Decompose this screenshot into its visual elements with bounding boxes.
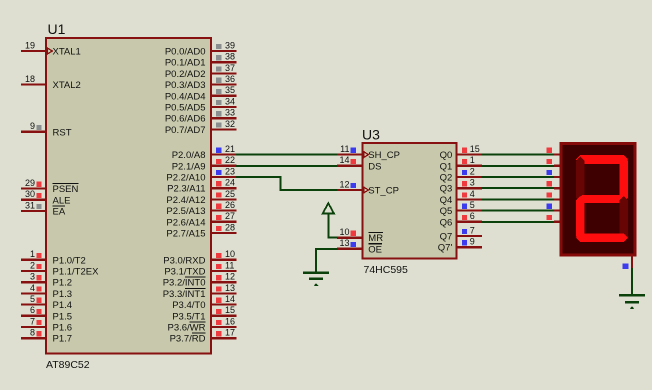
svg-text:21: 21	[225, 144, 235, 154]
svg-text:P3.5/T1: P3.5/T1	[172, 311, 205, 322]
node display segment g pin	[547, 215, 562, 223]
U1 pin 39 P0.0/AD0 (right)	[165, 40, 237, 57]
svg-text:Q1: Q1	[440, 161, 453, 172]
svg-text:3: 3	[30, 272, 35, 282]
svg-text:ST_CP: ST_CP	[368, 186, 399, 197]
wire VCC to MR pin 10	[327, 237, 337, 239]
svg-text:P1.1/T2EX: P1.1/T2EX	[53, 267, 100, 278]
wire Q4 to display segment e	[481, 198, 554, 200]
svg-text:P3.3/INT1: P3.3/INT1	[163, 289, 206, 300]
wire Q0 to display segment a	[481, 154, 554, 156]
svg-text:P2.1/A9: P2.1/A9	[172, 161, 206, 172]
U1 pin 13 P3.3/INT1 (right)	[163, 283, 237, 300]
U1 pin 22 P2.1/A9 (right)	[172, 155, 237, 172]
svg-text:Q5: Q5	[440, 206, 453, 217]
svg-text:Q6: Q6	[440, 217, 453, 228]
svg-text:7: 7	[30, 316, 35, 326]
ground symbol (display)	[619, 294, 645, 309]
wire Q2 to display segment c	[481, 176, 554, 178]
display segment g (on)	[578, 195, 626, 203]
wire P2.0 to SH_CP	[236, 154, 338, 156]
svg-text:33: 33	[225, 108, 235, 118]
wire Q6 to display segment g	[481, 221, 554, 223]
svg-text:Q0: Q0	[440, 150, 453, 161]
svg-text:P2.5/A13: P2.5/A13	[166, 206, 205, 217]
U1 pin 8 P1.7 (left)	[21, 328, 72, 345]
svg-text:13: 13	[339, 238, 349, 248]
svg-text:11: 11	[225, 260, 234, 270]
svg-text:P2.6/A14: P2.6/A14	[166, 217, 205, 228]
U1 pin 11 P3.1/TXD (right)	[164, 260, 236, 277]
node display segment b pin	[547, 159, 562, 167]
svg-text:14: 14	[225, 294, 235, 304]
svg-text:P3.2/INT0: P3.2/INT0	[163, 278, 206, 289]
svg-text:P0.0/AD0: P0.0/AD0	[165, 47, 206, 58]
svg-text:38: 38	[225, 52, 235, 62]
U1 pin 28 P2.7/A15 (right)	[166, 222, 236, 239]
value label 74HC595	[364, 264, 409, 276]
svg-text:2: 2	[30, 260, 35, 270]
svg-text:AT89C52: AT89C52	[46, 359, 90, 371]
U3 pin 7 Q7 (right)	[440, 225, 482, 242]
svg-text:XTAL1: XTAL1	[53, 47, 81, 58]
7-segment display body	[561, 144, 635, 256]
U1 pin 19 XTAL1 (left)	[21, 40, 81, 57]
svg-text:13: 13	[225, 283, 235, 293]
svg-text:12: 12	[225, 272, 235, 282]
node display segment a pin	[547, 148, 562, 156]
svg-text:3: 3	[470, 178, 475, 188]
svg-text:1: 1	[30, 249, 35, 259]
wire Q5 to display segment f	[481, 210, 554, 212]
svg-text:25: 25	[225, 189, 235, 199]
svg-text:P2.3/A11: P2.3/A11	[167, 184, 205, 195]
display segment d (on)	[576, 234, 628, 243]
svg-text:P2.0/A8: P2.0/A8	[172, 150, 206, 161]
wire Q3 to display segment d	[481, 187, 554, 189]
U3 pin 10 MR (left)	[337, 227, 383, 244]
U1 pin 26 P2.5/A13 (right)	[166, 200, 236, 217]
U1 pin 21 P2.0/A8 (right)	[172, 144, 237, 161]
svg-text:P0.5/AD5: P0.5/AD5	[165, 103, 206, 114]
U3 pin 1 Q1 (right)	[440, 155, 482, 172]
U3 pin 11 SH_CP (left)	[337, 144, 400, 161]
U1 pin 14 P3.4/T0 (right)	[172, 294, 236, 311]
display common cathode pin	[623, 255, 633, 269]
U1 pin 30 ALE (left)	[21, 189, 70, 206]
svg-text:DS: DS	[368, 161, 381, 172]
wire P2.1 to DS	[236, 165, 338, 167]
svg-text:27: 27	[225, 211, 235, 221]
display segment b (on)	[620, 157, 629, 203]
U1 pin 6 P1.5 (left)	[21, 305, 72, 322]
svg-text:5: 5	[30, 294, 35, 304]
svg-text:P0.6/AD6: P0.6/AD6	[165, 114, 206, 125]
svg-text:OE: OE	[368, 244, 382, 255]
svg-text:P2.7/A15: P2.7/A15	[166, 229, 205, 240]
svg-text:XTAL2: XTAL2	[53, 80, 81, 91]
ground symbol (U3 OE)	[303, 272, 329, 286]
display segment e (on)	[576, 196, 585, 241]
svg-text:16: 16	[225, 316, 235, 326]
U3 pin 12 ST_CP (left)	[337, 179, 399, 196]
wire OE pin 13 to ground	[315, 248, 338, 272]
reference label U3	[362, 127, 380, 143]
svg-text:35: 35	[225, 85, 235, 95]
svg-text:P1.4: P1.4	[53, 300, 73, 311]
U1 pin 10 P3.0/RXD (right)	[163, 249, 236, 266]
svg-text:9: 9	[470, 237, 475, 247]
value label AT89C52	[46, 359, 90, 371]
U1 pin 24 P2.3/A11 (right)	[167, 178, 236, 195]
U1 pin 2 P1.1/T2EX (left)	[21, 260, 99, 277]
svg-text:Q7': Q7'	[438, 243, 453, 254]
U1 pin 16 P3.6/WR (right)	[167, 316, 236, 333]
svg-text:34: 34	[225, 96, 235, 106]
svg-text:P0.7/AD7: P0.7/AD7	[165, 125, 206, 136]
svg-text:P2.2/A10: P2.2/A10	[166, 173, 205, 184]
svg-text:9: 9	[30, 121, 35, 131]
wire P2.2 to ST_CP (stepped)	[236, 176, 338, 191]
svg-text:P1.3: P1.3	[53, 289, 73, 300]
svg-text:11: 11	[340, 144, 349, 154]
svg-text:31: 31	[25, 200, 35, 210]
svg-text:P3.4/T0: P3.4/T0	[172, 300, 205, 311]
svg-text:12: 12	[339, 179, 349, 189]
svg-text:ALE: ALE	[53, 195, 71, 206]
U3 pin 4 Q4 (right)	[440, 189, 482, 206]
svg-text:P1.0/T2: P1.0/T2	[53, 255, 86, 266]
svg-text:24: 24	[225, 178, 235, 188]
U1 pin 7 P1.6 (left)	[21, 316, 72, 333]
svg-text:18: 18	[25, 74, 35, 84]
svg-text:1: 1	[470, 155, 475, 165]
display segment f (off)	[576, 157, 585, 203]
svg-text:2: 2	[470, 166, 475, 176]
U1 pin 9 RST (left)	[21, 121, 72, 138]
svg-text:26: 26	[225, 200, 235, 210]
U1 pin 18 XTAL2 (left)	[21, 74, 81, 91]
U1 pin 32 P0.7/AD7 (right)	[165, 119, 237, 136]
svg-text:19: 19	[25, 40, 35, 50]
svg-text:Q7: Q7	[440, 232, 453, 243]
svg-text:7: 7	[470, 225, 475, 235]
svg-text:4: 4	[30, 283, 35, 293]
svg-text:37: 37	[225, 63, 235, 73]
node display segment f pin	[547, 204, 562, 212]
U3 pin 15 Q0 (right)	[440, 144, 482, 161]
svg-text:U3: U3	[362, 127, 380, 143]
U3 pin 3 Q3 (right)	[440, 178, 482, 195]
U1 pin 1 P1.0/T2 (left)	[21, 249, 86, 266]
IC U3 74HC595 shift register body	[362, 143, 456, 259]
U1 pin 36 P0.3/AD3 (right)	[165, 74, 237, 91]
svg-text:10: 10	[225, 249, 235, 259]
U1 pin 5 P1.4 (left)	[21, 294, 72, 311]
svg-text:Q2: Q2	[440, 173, 453, 184]
svg-text:RST: RST	[53, 127, 72, 138]
svg-text:P1.7: P1.7	[53, 334, 73, 345]
svg-text:4: 4	[470, 189, 475, 199]
wire display common to ground	[631, 268, 633, 295]
svg-text:17: 17	[225, 328, 235, 338]
svg-text:P1.2: P1.2	[53, 278, 73, 289]
display segment a (on)	[576, 155, 628, 164]
svg-text:6: 6	[30, 305, 35, 315]
U1 pin 3 P1.2 (left)	[21, 272, 72, 289]
svg-text:5: 5	[470, 200, 475, 210]
U1 pin 12 P3.2/INT0 (right)	[163, 272, 237, 289]
svg-text:U1: U1	[48, 21, 66, 37]
svg-text:22: 22	[225, 155, 235, 165]
svg-text:P0.3/AD3: P0.3/AD3	[165, 80, 206, 91]
svg-text:EA: EA	[53, 207, 66, 218]
U1 pin 34 P0.5/AD5 (right)	[165, 96, 237, 113]
svg-text:36: 36	[225, 74, 235, 84]
svg-text:8: 8	[30, 328, 35, 338]
svg-text:P3.6/WR: P3.6/WR	[167, 323, 205, 334]
svg-text:29: 29	[25, 178, 35, 188]
U3 pin 2 Q2 (right)	[440, 166, 482, 183]
svg-text:P0.1/AD1: P0.1/AD1	[165, 58, 206, 69]
U1 pin 29 PSEN (left)	[21, 178, 79, 195]
svg-text:32: 32	[225, 119, 235, 129]
svg-text:30: 30	[25, 189, 35, 199]
svg-text:P1.5: P1.5	[53, 311, 73, 322]
svg-text:PSEN: PSEN	[53, 184, 79, 195]
U1 pin 31 EA (left)	[21, 200, 66, 217]
U1 pin 4 P1.3 (left)	[21, 283, 72, 300]
U1 pin 23 P2.2/A10 (right)	[166, 166, 236, 183]
svg-text:P0.2/AD2: P0.2/AD2	[165, 69, 206, 80]
svg-text:14: 14	[339, 155, 349, 165]
node display segment e pin	[547, 192, 562, 200]
svg-text:Q4: Q4	[440, 195, 453, 206]
node display segment c pin	[547, 170, 562, 178]
svg-text:P3.1/TXD: P3.1/TXD	[164, 267, 205, 278]
svg-text:P3.0/RXD: P3.0/RXD	[163, 255, 205, 266]
svg-text:SH_CP: SH_CP	[368, 150, 400, 161]
IC U1 AT89C52 microcontroller body	[46, 38, 211, 354]
U1 pin 38 P0.1/AD1 (right)	[165, 52, 237, 69]
svg-text:10: 10	[339, 227, 349, 237]
svg-text:P2.4/A12: P2.4/A12	[166, 195, 205, 206]
svg-text:P3.7/RD: P3.7/RD	[170, 334, 206, 345]
U3 pin 13 OE (left)	[337, 238, 382, 255]
power symbol VCC arrow	[323, 203, 334, 239]
node display segment d pin	[547, 181, 562, 189]
svg-text:74HC595: 74HC595	[364, 264, 409, 276]
U1 pin 33 P0.6/AD6 (right)	[165, 108, 237, 125]
U3 pin 6 Q6 (right)	[440, 211, 482, 228]
U3 pin 9 Q7' (right)	[438, 237, 482, 254]
svg-text:28: 28	[225, 222, 235, 232]
U1 pin 35 P0.4/AD4 (right)	[165, 85, 237, 102]
U1 pin 17 P3.7/RD (right)	[170, 328, 237, 345]
U1 pin 25 P2.4/A12 (right)	[166, 189, 236, 206]
wire Q1 to display segment b	[481, 165, 554, 167]
U1 pin 27 P2.6/A14 (right)	[166, 211, 236, 228]
svg-text:P1.6: P1.6	[53, 323, 73, 334]
svg-text:6: 6	[470, 211, 475, 221]
svg-text:Q3: Q3	[440, 184, 453, 195]
svg-text:23: 23	[225, 166, 235, 176]
U3 pin 14 DS (left)	[337, 155, 382, 172]
U1 pin 37 P0.2/AD2 (right)	[165, 63, 237, 80]
reference label U1	[48, 21, 66, 37]
display segment c (off)	[620, 196, 629, 241]
svg-text:P0.4/AD4: P0.4/AD4	[165, 91, 206, 102]
svg-text:15: 15	[470, 144, 480, 154]
U3 pin 5 Q5 (right)	[440, 200, 482, 217]
svg-text:15: 15	[225, 305, 235, 315]
svg-text:39: 39	[225, 40, 235, 50]
svg-text:MR: MR	[368, 233, 383, 244]
U1 pin 15 P3.5/T1 (right)	[172, 305, 236, 322]
